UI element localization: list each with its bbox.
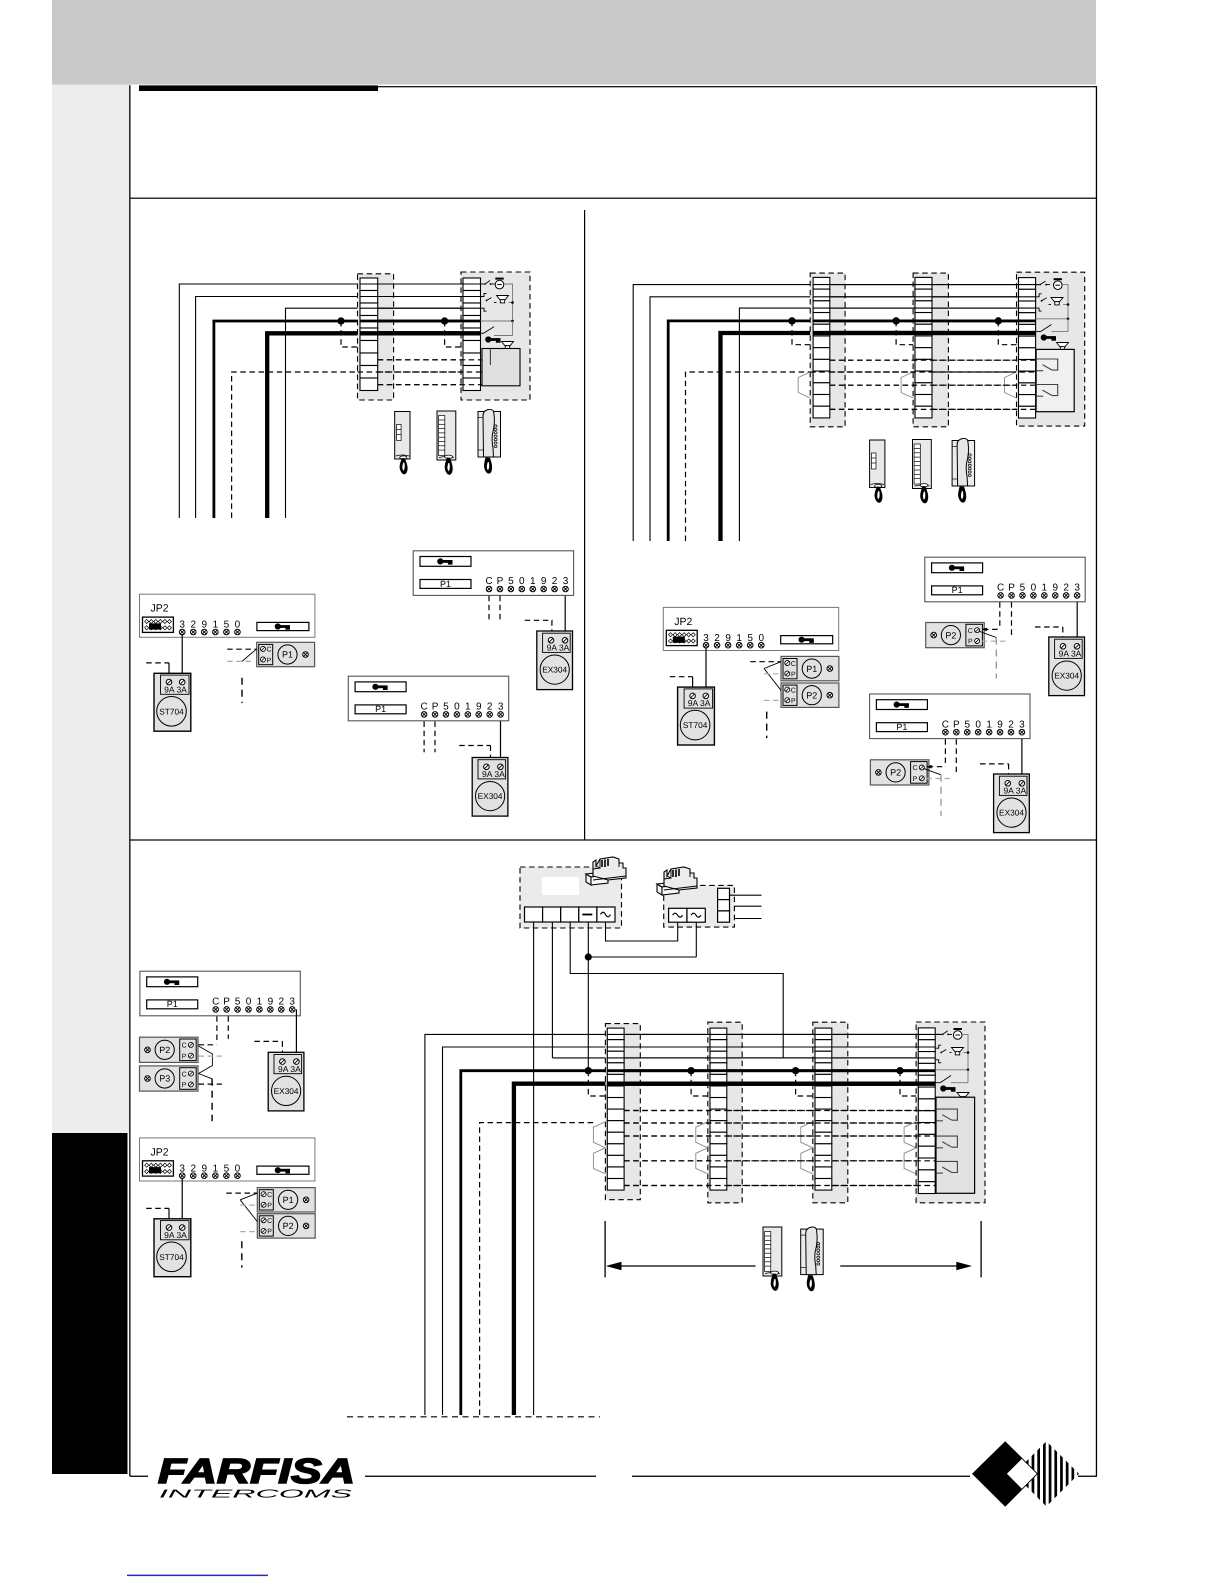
dash P2 C to C-drop — [199, 1044, 217, 1046]
svg-text:P: P — [497, 576, 504, 587]
junction dot 2 — [441, 317, 448, 324]
dashed link to P2 C — [983, 628, 1000, 630]
link P2 C to drop — [979, 631, 997, 638]
frame top border — [378, 86, 1096, 87]
svg-text:5: 5 — [443, 702, 449, 713]
svg-text:EX304: EX304 — [999, 808, 1024, 818]
module P3 (C/P right) — [140, 1066, 199, 1091]
junction dots diagram1 (over) — [337, 317, 344, 324]
wires f2-f3 — [727, 1033, 816, 1035]
diag from P3 C — [199, 1074, 213, 1079]
wire riser 6b — [739, 308, 813, 541]
svg-text:P1: P1 — [896, 722, 907, 732]
module P2 (C/P left) — [781, 683, 839, 707]
svg-text:5: 5 — [1020, 583, 1026, 594]
gray dashed rows — [764, 673, 781, 675]
PSU2 mains terminals — [718, 888, 730, 922]
svg-text:2: 2 — [552, 576, 558, 587]
door unit 2 dashed box — [1017, 272, 1085, 426]
gray dashed rows 3 — [240, 1204, 257, 1206]
dashed feed to EX304 E4 — [980, 763, 1009, 765]
dashed wire from P of EC3 — [1011, 602, 1013, 637]
floor strip F2 terminal cells — [710, 1028, 727, 1190]
svg-text:9A 3A: 9A 3A — [164, 1230, 187, 1240]
dashed wire to ST704-2 9A — [670, 676, 693, 678]
link P2b C to drop — [923, 768, 941, 775]
wire row overlays diagram2 — [813, 284, 1039, 286]
terminal strip B1 dashed box — [810, 273, 845, 427]
svg-text:ST704: ST704 — [159, 1252, 184, 1262]
encoder EC4 terminals C P 5 0 1 9 2 3 — [942, 719, 1025, 735]
svg-text:1: 1 — [465, 702, 471, 713]
link t4 to PSU2 — [588, 956, 696, 958]
door unit 3 terminal cells — [918, 1028, 935, 1194]
dashed feed to EX304 E2 — [459, 745, 490, 747]
unit1 buzzer circuit — [481, 283, 485, 285]
dashed drop below P2b — [766, 712, 768, 739]
unit2 key icon — [1041, 334, 1056, 340]
unit2 row4 to rail — [1036, 318, 1068, 320]
unit3 relay 1 — [936, 1109, 957, 1121]
wires s2-unit — [932, 284, 1019, 286]
svg-text:EX304: EX304 — [542, 665, 567, 675]
wire terminal3 to E2 — [500, 721, 502, 767]
door unit 3 dashed box — [916, 1022, 985, 1203]
gray dashed from P2 P — [982, 640, 1007, 642]
riser v3 thick — [461, 1071, 608, 1415]
dashed wire from C of EC2 — [423, 722, 425, 753]
svg-text:P3: P3 — [159, 1074, 170, 1084]
wire terminal3 to E3 — [1076, 602, 1078, 646]
dashed P3 P row — [199, 1083, 222, 1085]
zigzag link wires — [764, 662, 781, 669]
power supply PSU2 dashed box — [664, 885, 735, 927]
floor strip F2 dashed box — [708, 1022, 742, 1203]
wire riser 1b — [633, 285, 813, 541]
PSU1 wire t5 — [606, 922, 678, 941]
footer rule segments — [130, 1476, 148, 1477]
svg-text:P: P — [267, 1203, 272, 1210]
door lock button on JP2 unit 3 — [257, 1166, 309, 1174]
svg-text:P2: P2 — [945, 630, 956, 640]
junction dot psu — [585, 953, 592, 960]
svg-text:5: 5 — [964, 719, 970, 730]
svg-text:JP2: JP2 — [150, 1146, 168, 1158]
terminal strip B1 terminal cells — [813, 277, 830, 418]
unit1 key icon — [485, 336, 500, 342]
jumper JP2 — [666, 630, 697, 645]
dashed wire to P1c C — [226, 1192, 257, 1194]
svg-text:3: 3 — [1074, 583, 1080, 594]
range bar right — [980, 1221, 982, 1277]
JP2 unit 2 terminals 3 2 9 1 5 0 — [703, 633, 764, 648]
riser v2 — [443, 1047, 608, 1415]
svg-text:P: P — [791, 671, 796, 678]
floor strip F3 dashed box — [813, 1022, 848, 1203]
power supply PSU1 dashed box — [520, 867, 622, 928]
module P2 (C/P right) — [870, 760, 929, 785]
bottom dashed end line — [347, 1416, 600, 1418]
door lock button on JP2 unit 1 — [257, 622, 309, 630]
module P2 (C/P left) — [257, 1214, 315, 1238]
svg-text:5: 5 — [508, 576, 514, 587]
svg-text:0: 0 — [1031, 583, 1037, 594]
encoder EC1 encoder box — [413, 551, 573, 596]
svg-text:9A 3A: 9A 3A — [1003, 786, 1026, 796]
svg-text:P1: P1 — [806, 664, 817, 674]
svg-text:EX304: EX304 — [478, 791, 503, 801]
wire terminal3 to E5 — [295, 1009, 297, 1063]
unit2 relay 2 — [1037, 385, 1058, 397]
wire riser 3b (thick) — [668, 321, 813, 541]
terminal strip A dashed box — [358, 274, 394, 400]
stub from dot2 — [445, 321, 461, 347]
unit1 switch row5 — [481, 332, 484, 334]
svg-text:C: C — [182, 1071, 187, 1078]
riser v4 dashed — [480, 1123, 595, 1415]
gray dashed drop below P2b — [940, 775, 942, 816]
dashed wire from C of EC5 — [216, 1016, 218, 1043]
encoder EC3 encoder box — [925, 557, 1085, 602]
svg-text:C: C — [942, 719, 949, 730]
row3 from t2 — [552, 1057, 607, 1059]
svg-text:P1: P1 — [375, 704, 386, 714]
svg-text:ST704: ST704 — [159, 706, 184, 716]
gray dashed P row — [227, 660, 254, 662]
module P2 (C/P right) — [926, 623, 985, 648]
wire riser 4 (dashed) — [232, 372, 358, 518]
right arrow — [840, 1265, 958, 1267]
svg-text:P2: P2 — [806, 690, 817, 700]
dashed wire from P of EC4 — [955, 739, 957, 775]
top gray band — [52, 0, 1096, 85]
svg-text:9A 3A: 9A 3A — [547, 643, 570, 653]
svg-text:P: P — [913, 776, 918, 783]
wire A-B row5 thick — [378, 331, 463, 335]
intercom phone B1 — [437, 411, 456, 475]
svg-text:0: 0 — [246, 997, 252, 1008]
unit3 buzzer circuit — [935, 1033, 941, 1035]
P1 label box on encoder EC2 — [355, 705, 406, 714]
EX304 E3 exchanger unit — [1049, 637, 1085, 696]
module P1 (C/P left) — [781, 656, 839, 680]
EX304 E5 exchanger unit — [268, 1052, 304, 1111]
dashed wire to P1 C — [227, 648, 257, 650]
svg-text:C: C — [912, 765, 917, 772]
svg-text:1: 1 — [257, 997, 263, 1008]
jumper JP2 — [143, 617, 174, 632]
svg-text:P: P — [1008, 583, 1015, 594]
unit3 inner box — [936, 1097, 975, 1193]
floor strip F1 dashed box — [605, 1024, 640, 1200]
ST704 S1 ringer unit — [154, 673, 191, 731]
door lock button on encoder EC5 — [147, 977, 198, 987]
svg-text:C: C — [485, 576, 492, 587]
JP2 unit 3 terminals 3 2 9 1 5 0 — [179, 1163, 240, 1178]
gray dashed from P2b P — [926, 778, 952, 780]
intercom phone A1 — [395, 412, 410, 475]
svg-text:P: P — [267, 657, 272, 664]
svg-text:P: P — [791, 698, 796, 705]
ACI logo white notch — [1007, 1459, 1037, 1489]
svg-text:9: 9 — [268, 997, 274, 1008]
unit2 bracket — [1036, 294, 1042, 311]
door unit 1 terminal cells — [463, 278, 481, 391]
svg-text:P: P — [182, 1082, 187, 1089]
svg-text:3: 3 — [1019, 719, 1025, 730]
svg-text:P1: P1 — [167, 999, 178, 1009]
wire riser 2 — [196, 297, 360, 519]
floor strip F1 terminal cells — [607, 1028, 624, 1190]
wire riser 1 — [179, 284, 360, 518]
dashed feed to EX304 E5 — [254, 1040, 282, 1042]
svg-text:C: C — [267, 1218, 272, 1225]
svg-text:JP2: JP2 — [674, 616, 692, 628]
dashed wire from C of EC4 — [944, 739, 946, 766]
svg-text:2: 2 — [1063, 583, 1069, 594]
encoder EC4 encoder box — [870, 694, 1030, 739]
unit1 speaker — [497, 296, 509, 303]
unit3 bracket — [935, 1045, 941, 1063]
EX304 E1 exchanger unit — [537, 631, 573, 690]
door unit 2 terminal cells — [1019, 278, 1036, 418]
column divider line — [584, 210, 585, 840]
black sidebar block — [52, 1133, 128, 1474]
unit2 switch — [1036, 331, 1041, 333]
gray dashed P2 P row — [199, 1055, 222, 1057]
wire A-B row4 thick — [378, 320, 463, 323]
unit1 lock box — [482, 349, 520, 386]
unit1 row4 to rail — [481, 320, 513, 322]
svg-text:9A 3A: 9A 3A — [278, 1064, 301, 1074]
svg-text:9A 3A: 9A 3A — [688, 698, 711, 708]
unit3 lock speaker — [957, 1093, 969, 1100]
dots row4 bottom — [585, 1067, 592, 1074]
EX304 E4 exchanger unit — [994, 774, 1030, 833]
header separator line — [130, 198, 1096, 199]
dashed wire to P1b C — [750, 661, 781, 663]
P1 label box on encoder EC1 — [420, 580, 471, 589]
svg-text:3: 3 — [498, 702, 504, 713]
svg-text:P2: P2 — [283, 1221, 294, 1231]
dots row4 diagram2 — [788, 317, 795, 324]
dashed drop below P2c — [241, 1241, 243, 1267]
door lock button on encoder EC2 — [355, 682, 406, 692]
unit2 relay 1 — [1037, 359, 1058, 371]
svg-text:C: C — [266, 647, 271, 654]
svg-text:2: 2 — [278, 997, 284, 1008]
svg-text:INTERCOMS: INTERCOMS — [159, 1489, 353, 1501]
range bar left — [604, 1221, 606, 1277]
svg-text:P: P — [182, 1053, 187, 1060]
svg-text:FARFISA: FARFISA — [158, 1452, 355, 1491]
terminal strip B2 terminal cells — [915, 277, 932, 418]
dashed wire from P of EC5 — [227, 1016, 229, 1038]
wire terminal3 to E4 — [1021, 739, 1023, 783]
door lock button on encoder EC4 — [876, 700, 927, 710]
braces diagram2 — [798, 372, 810, 398]
unit2 inner box — [1036, 349, 1074, 411]
svg-text:3: 3 — [289, 997, 295, 1008]
dashed wire from P of EC1 — [499, 596, 501, 623]
mid separator line — [130, 839, 1096, 840]
module P2 (C/P right) — [140, 1037, 199, 1062]
svg-text:9A 3A: 9A 3A — [164, 684, 187, 694]
gray dashed drop below P2 — [995, 638, 997, 679]
JP2 unit 1 interface box — [140, 594, 315, 637]
wire riser 5 (thick) — [267, 333, 360, 518]
wire row overlays diagram1 — [360, 283, 481, 285]
intercom phone C1 — [478, 409, 501, 473]
wires s1-s2 — [830, 284, 915, 286]
svg-text:C: C — [791, 661, 796, 668]
dashed drop below P1 — [241, 678, 243, 703]
svg-text:2: 2 — [1008, 719, 1014, 730]
unit3 switch — [935, 1082, 940, 1084]
svg-text:JP2: JP2 — [150, 603, 168, 615]
svg-text:0: 0 — [519, 576, 525, 587]
wire A-B row1 — [378, 283, 463, 285]
unit1 bracket cells2-3 — [481, 294, 487, 312]
svg-text:9A 3A: 9A 3A — [482, 769, 505, 779]
wire A-B row3 — [378, 307, 463, 309]
dashed wire from P of EC2 — [434, 722, 436, 753]
ST704 S3 ringer unit — [154, 1219, 191, 1277]
svg-text:9: 9 — [997, 719, 1003, 730]
svg-text:5: 5 — [235, 997, 241, 1008]
dashed wire to ST704-3 9A — [146, 1207, 169, 1209]
svg-text:1: 1 — [1042, 583, 1048, 594]
wire terminal3 to E1 — [564, 596, 566, 641]
encoder EC5 encoder box — [140, 971, 300, 1016]
svg-text:9: 9 — [1052, 583, 1058, 594]
frame left border — [129, 85, 130, 1476]
junction dots diagram2 (over) — [788, 317, 795, 324]
encoder EC2 encoder box — [348, 676, 508, 721]
unit2 lock speaker — [1057, 343, 1069, 350]
PSU1 terminal blocks — [525, 907, 616, 922]
svg-text:0: 0 — [975, 719, 981, 730]
zigzag link wires 3 — [240, 1193, 257, 1200]
unit3 speaker — [952, 1048, 964, 1055]
intercom phone B3 — [763, 1227, 782, 1291]
svg-text:ST704: ST704 — [683, 720, 708, 730]
buzzer — [495, 278, 504, 289]
unit2 speaker — [1051, 298, 1063, 305]
dashed link to P2b C — [928, 766, 946, 768]
title black bar — [139, 85, 378, 91]
JP2 unit 1 terminals 3 2 9 1 5 0 — [179, 620, 240, 635]
unit3 relay 3 — [936, 1161, 957, 1173]
wire A-B row2 — [378, 296, 463, 298]
unit3 key icon — [940, 1085, 955, 1091]
P1 label box on encoder EC4 — [876, 723, 927, 732]
PSU1 wire t1 — [533, 922, 535, 1415]
dashed wire to ST704 9A — [146, 662, 169, 664]
wire JP2-1 terminal3 to ST704 — [181, 634, 183, 682]
svg-text:9: 9 — [476, 702, 482, 713]
blue footer line — [127, 1575, 268, 1577]
PSU1 wire t3 — [570, 922, 783, 1058]
unit2 buzzer circuit — [1036, 284, 1039, 286]
ST704 S2 ringer unit — [678, 687, 715, 745]
unit3 row to rail — [935, 1069, 968, 1071]
PSU2 mains wires — [730, 894, 762, 896]
PSU2 terminal blocks — [669, 908, 687, 922]
svg-text:9: 9 — [541, 576, 547, 587]
terminal strip A terminal cells — [360, 278, 378, 391]
svg-text:EX304: EX304 — [274, 1086, 299, 1096]
dashed wire from C of EC1 — [488, 596, 490, 623]
svg-text:P1: P1 — [952, 585, 963, 595]
unit3 relay 2 — [936, 1136, 957, 1148]
svg-text:P2: P2 — [890, 768, 901, 778]
buzzer3 — [953, 1028, 962, 1039]
encoder EC1 terminals C P 5 0 1 9 2 3 — [485, 576, 568, 592]
svg-text:2: 2 — [487, 702, 493, 713]
wire riser 6 — [286, 308, 361, 518]
encoder EC2 terminals C P 5 0 1 9 2 3 — [420, 702, 503, 718]
svg-text:P1: P1 — [282, 650, 293, 660]
terminal strip B2 dashed box — [913, 273, 948, 427]
riser v1 — [425, 1034, 607, 1415]
svg-text:C: C — [212, 997, 219, 1008]
wires f3-unit — [832, 1033, 919, 1035]
ACI logo black diamond — [972, 1441, 1038, 1507]
svg-text:P: P — [432, 702, 439, 713]
wires f1-f2 — [624, 1033, 710, 1035]
unit1 dashed rows into lock box — [481, 359, 483, 361]
dashed feed to EX304 E3 — [1035, 626, 1063, 628]
PSU1 wire t4 — [587, 922, 589, 1071]
unit1 lock speaker — [502, 342, 514, 349]
left sidebar — [52, 85, 130, 1134]
encoder EC3 terminals C P 5 0 1 9 2 3 — [997, 583, 1080, 599]
module P1 (C/P left) — [257, 642, 315, 666]
svg-text:P1: P1 — [440, 579, 451, 589]
PSU1 transformer icon — [586, 857, 626, 885]
encoder EC5 terminals C P 5 0 1 9 2 3 — [212, 997, 295, 1013]
PSU1 wire t2 — [551, 922, 553, 1058]
stub from dot1 — [341, 321, 358, 347]
intercom phone A2 — [870, 440, 885, 503]
dashed wire from C of EC3 — [999, 602, 1001, 629]
wire JP2-2 terminal3 to ST704 — [705, 647, 707, 695]
frame right border — [1096, 86, 1097, 1476]
svg-text:P: P — [223, 997, 230, 1008]
module P1 (C/P left) — [257, 1188, 315, 1212]
intercom phone C3 — [801, 1227, 824, 1291]
svg-text:C: C — [182, 1043, 187, 1050]
svg-text:9A 3A: 9A 3A — [1059, 649, 1082, 659]
braces bottom — [593, 1122, 605, 1148]
wire JP2-3 terminal3 to ST704 — [181, 1178, 183, 1227]
svg-text:C: C — [997, 583, 1004, 594]
PSU2 transformer icon — [657, 867, 697, 895]
svg-text:0: 0 — [454, 702, 460, 713]
svg-text:P2: P2 — [159, 1045, 170, 1055]
svg-text:C: C — [968, 628, 973, 635]
dashed drop below P3 — [211, 1079, 213, 1121]
svg-text:P: P — [968, 639, 973, 646]
intercom phone C2 — [952, 438, 975, 502]
svg-text:P: P — [953, 719, 960, 730]
svg-text:EX304: EX304 — [1054, 671, 1079, 681]
EX304 E2 exchanger unit — [472, 758, 508, 817]
P1 label box on encoder EC5 — [147, 1000, 198, 1009]
floor strip F3 terminal cells — [815, 1028, 832, 1190]
junction dots bottom (over) — [585, 1067, 592, 1074]
